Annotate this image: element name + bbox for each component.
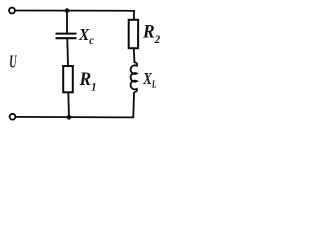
- capacitor XC top plate: [56, 33, 77, 35]
- svg-text:U: U: [9, 53, 17, 73]
- capacitor XC bottom plate: [56, 37, 77, 39]
- wire right branch lower: [132, 92, 135, 117]
- resistor R1: [63, 66, 73, 92]
- svg-text:XL: XL: [142, 71, 157, 90]
- resistor R2: [129, 20, 138, 48]
- svg-text:R2: R2: [142, 21, 160, 46]
- wire bottom rail: [16, 116, 134, 119]
- svg-text:Xc: Xc: [78, 27, 94, 48]
- inductor XL: [131, 62, 138, 92]
- wire middle branch lower: [67, 93, 70, 117]
- node junction top: [65, 8, 70, 13]
- wire middle branch upper: [66, 11, 68, 34]
- wire middle branch between C and R1: [66, 39, 69, 66]
- wire between R2 and XL: [133, 49, 136, 63]
- wire right branch upper: [133, 11, 135, 20]
- terminal top-left: [9, 8, 15, 14]
- node junction bottom: [67, 115, 72, 120]
- svg-text:R1: R1: [79, 68, 97, 93]
- terminal bottom-left: [10, 114, 16, 120]
- wire top rail: [16, 10, 135, 12]
